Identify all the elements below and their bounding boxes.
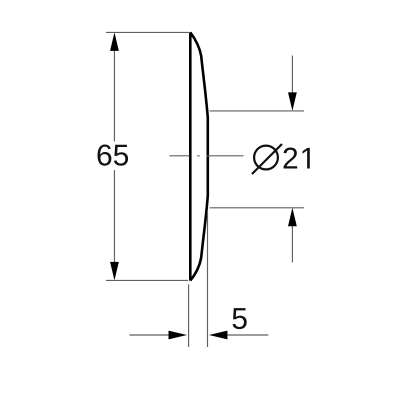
arrowhead up (65 dim) xyxy=(110,32,119,51)
arrowhead right (5 dim left) xyxy=(169,331,188,340)
label 65 xyxy=(98,144,112,165)
label 21: digit 1 xyxy=(302,148,309,169)
extension line bottom (65 dim) xyxy=(106,279,188,281)
arrowhead left (5 dim right) xyxy=(209,331,228,340)
centerline right dash xyxy=(206,155,243,157)
dimension line left (5 dim) xyxy=(130,334,170,336)
arrowhead down (d21 top) xyxy=(288,92,297,111)
arrow line top (d21, pointing down) xyxy=(291,56,293,94)
diameter symbol circle xyxy=(254,146,278,170)
part outline: left face (vertical edge of cap) xyxy=(189,32,192,280)
arrow line bottom (d21, pointing up) xyxy=(291,226,293,263)
label 21 xyxy=(284,148,298,169)
dimension line 65 (vertical, interrupted by text) xyxy=(113,50,115,263)
label 5 xyxy=(233,308,247,329)
centerline dot xyxy=(197,155,199,157)
arrowhead down (65 dim) xyxy=(110,262,119,281)
arrowhead up (d21 bottom) xyxy=(288,208,297,227)
extension line top (65 dim) xyxy=(106,31,189,33)
centerline left dash xyxy=(170,155,190,157)
part outline: convex right profile of cap xyxy=(190,32,208,280)
extension line top (d21 dim) xyxy=(210,110,305,112)
dimension line right (5 dim) xyxy=(227,334,268,336)
extension line bottom (d21 dim) xyxy=(210,207,305,209)
extension line right (5 dim) xyxy=(207,212,209,347)
diameter symbol slash xyxy=(252,144,282,174)
extension line left (5 dim) xyxy=(188,284,190,347)
label 65: digit 5 xyxy=(114,145,128,166)
